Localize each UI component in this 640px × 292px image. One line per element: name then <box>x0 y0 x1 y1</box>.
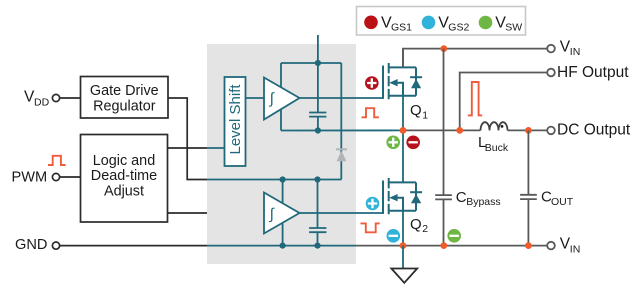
wire level shift input (teal inside panel) <box>207 147 225 149</box>
wire driver U1 output to Q1 gate <box>300 97 384 99</box>
block Level Shift <box>225 77 246 166</box>
HF output wire <box>460 73 548 131</box>
wire driver U2 output to Q2 gate <box>300 212 384 214</box>
svg-text:1: 1 <box>422 109 428 121</box>
op-amp driver U2 (low side) <box>264 193 300 234</box>
node PWM terminal <box>52 173 59 180</box>
wire logic block to level shift <box>168 147 208 149</box>
node Q2 source junction <box>400 242 407 249</box>
inductor L_Buck <box>481 122 508 130</box>
block Logic and Dead-time Adjust <box>81 135 168 223</box>
node HF tap junction <box>456 127 463 134</box>
node VIN terminal (top) <box>547 45 555 53</box>
pulse icon at switch node (tall) <box>468 82 482 115</box>
svg-text:DC Output: DC Output <box>557 122 631 139</box>
wire Q1 source to switch node <box>402 96 404 131</box>
node C_OUT junction <box>525 242 532 249</box>
node C_Bypass junction <box>440 242 447 249</box>
legend dot VGS2 (cyan) <box>422 16 436 30</box>
Q1 body diode triangle <box>411 79 421 88</box>
capacitor C_Bypass <box>443 49 445 246</box>
wire GND to panel <box>60 245 207 247</box>
Q1 body-diode arrowhead <box>389 79 397 86</box>
marker VGS1 plus (red) <box>365 76 379 90</box>
Q2 body-diode arrowhead <box>389 194 397 201</box>
node GND terminal <box>52 242 59 249</box>
bottom VIN rail (gray) <box>356 245 547 247</box>
svg-text:Buck: Buck <box>485 142 509 154</box>
svg-text:Regulator: Regulator <box>93 98 156 114</box>
bottom rail inside panel (teal) <box>207 245 356 247</box>
svg-text:Bypass: Bypass <box>466 196 500 208</box>
transistor Q2 (low-side MOSFET) <box>383 178 422 214</box>
node junction on VIN rail <box>440 45 447 52</box>
pulse icon at PWM input <box>48 156 66 165</box>
wire level shift to high-side driver <box>246 97 265 99</box>
marker VGS2 plus (cyan) <box>366 197 380 211</box>
node switch-node junction <box>400 127 407 134</box>
marker VSW plus (green) <box>386 136 400 150</box>
wire to ground symbol <box>402 246 404 269</box>
svg-text:PWM: PWM <box>12 169 48 185</box>
svg-text:C: C <box>456 189 467 206</box>
node VDD terminal <box>52 94 59 101</box>
wire regulator output to low-side driver rail <box>168 98 207 180</box>
node DC junction at COUT <box>525 127 532 134</box>
Q2 body diode triangle <box>411 194 421 203</box>
VIN top rail (gray) <box>403 49 547 68</box>
svg-text:GS1: GS1 <box>391 22 412 34</box>
ground <box>391 269 417 283</box>
wire VDD to regulator <box>60 97 81 99</box>
svg-text:OUT: OUT <box>551 196 574 208</box>
legend box <box>357 7 526 36</box>
node junction dots on high-side bus <box>315 60 321 66</box>
svg-text:Adjust: Adjust <box>104 184 144 200</box>
node junction dots on low-side rails <box>280 176 286 182</box>
DC output rail (gray) <box>403 129 481 131</box>
wire Q2 source to bottom rail <box>402 211 404 246</box>
node DC Output terminal <box>547 127 555 135</box>
bootstrap diode D1 (gray) <box>336 148 347 150</box>
wire Q1 drain to VIN rail (gray) <box>402 49 404 68</box>
svg-text:DD: DD <box>34 97 50 109</box>
VSW bus (high-side driver return) <box>281 129 403 131</box>
pulse icon at Q1 gate <box>362 108 379 117</box>
wire Q2 drain to switch node <box>402 130 404 182</box>
transistor Q1 (high-side MOSFET) <box>383 63 422 99</box>
node VIN terminal (bottom) <box>547 242 555 250</box>
svg-text:IN: IN <box>570 243 581 255</box>
driver panel (gray) <box>207 44 356 264</box>
marker VGS2 minus (cyan) <box>387 229 401 243</box>
svg-text:2: 2 <box>422 223 428 235</box>
svg-text:Dead-time: Dead-time <box>91 168 157 184</box>
svg-text:IN: IN <box>570 46 581 58</box>
svg-text:GND: GND <box>15 237 47 253</box>
svg-text:HF Output: HF Output <box>557 64 629 81</box>
wire logic block to low-side driver input <box>168 212 208 214</box>
node HF Output terminal <box>547 69 555 77</box>
block Gate Drive Regulator <box>81 77 169 119</box>
wire PWM to logic block <box>60 176 81 178</box>
inverted pulse icon at Q2 gate <box>361 223 380 232</box>
svg-text:Q: Q <box>410 102 422 119</box>
svg-text:Q: Q <box>410 216 422 233</box>
capacitor C (low-side driver) plates <box>309 228 326 232</box>
marker VSW minus (green) <box>447 229 461 243</box>
svg-text:Gate Drive: Gate Drive <box>90 83 159 99</box>
legend dot VSW (green) <box>479 16 493 30</box>
op-amp driver U1 (high side) <box>264 78 300 120</box>
svg-text:Level Shift: Level Shift <box>227 84 244 155</box>
marker VGS1 minus (red) <box>406 136 420 150</box>
capacitor C_OUT <box>527 130 529 245</box>
bootstrap capacitor C (high-side) plates <box>309 113 326 117</box>
legend dot VGS1 (red) <box>364 15 378 29</box>
high-side driver supply bus <box>281 35 341 131</box>
svg-text:GS2: GS2 <box>448 22 469 34</box>
svg-text:SW: SW <box>505 22 522 34</box>
low-side driver supply rail <box>207 180 341 246</box>
bootstrap diode vertical wire <box>340 131 342 180</box>
svg-text:Logic and: Logic and <box>93 153 155 169</box>
